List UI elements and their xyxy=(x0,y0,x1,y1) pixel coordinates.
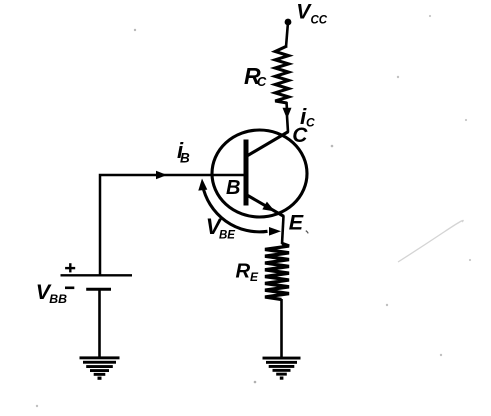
svg-text:B: B xyxy=(226,177,240,199)
svg-text:BB: BB xyxy=(49,292,67,306)
svg-text:C: C xyxy=(257,74,267,89)
svg-text:B: B xyxy=(180,151,190,166)
svg-text:E: E xyxy=(250,270,259,284)
svg-text:CC: CC xyxy=(311,15,328,27)
svg-text:E: E xyxy=(289,210,304,234)
svg-text:BE: BE xyxy=(219,229,235,241)
svg-text:C: C xyxy=(292,124,308,147)
svg-text:R: R xyxy=(236,260,251,282)
